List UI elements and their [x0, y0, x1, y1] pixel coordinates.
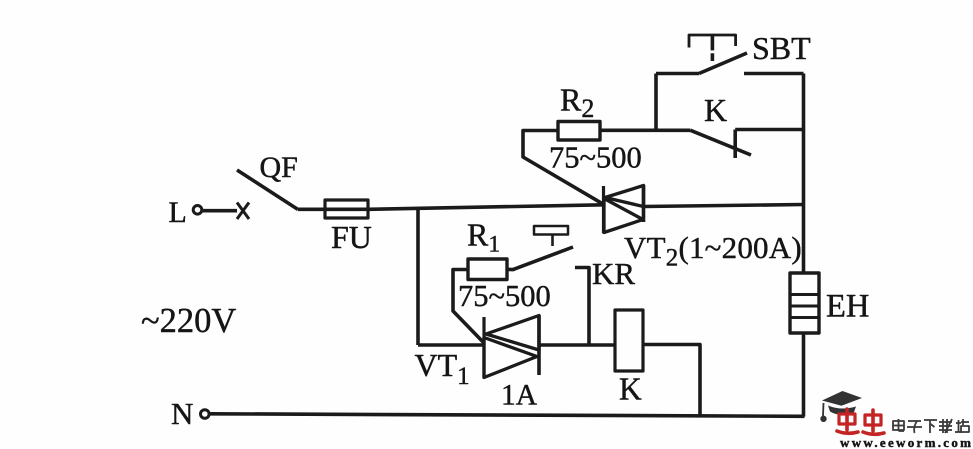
svg-text:R1: R1: [467, 217, 500, 258]
wire R1 gate bend: [453, 270, 484, 344]
wire SBT right: [744, 72, 804, 76]
wire right vertical upper: [802, 74, 806, 274]
wire R2 gate bend: [523, 131, 604, 205]
svg-text:K: K: [704, 92, 727, 128]
graduation cap: [822, 391, 862, 415]
svg-text:SBT: SBT: [752, 30, 811, 66]
tassel: [821, 403, 825, 421]
svg-text:QF: QF: [260, 151, 298, 184]
wire QF to FU: [298, 208, 325, 212]
wire R2 to K contact: [600, 129, 691, 133]
svg-text:www.eeworm.com: www.eeworm.com: [840, 435, 973, 449]
triac VT2: [604, 185, 802, 272]
relay coil K: [615, 310, 643, 407]
wire R1 to KR contact: [507, 268, 514, 272]
wire KR vertical with hook: [575, 256, 635, 345]
terminal N: [171, 396, 209, 431]
wire junction down branch: [416, 209, 420, 346]
svg-text:R2: R2: [560, 82, 594, 124]
svg-text:75~500: 75~500: [549, 141, 642, 175]
svg-text:K: K: [619, 372, 642, 407]
svg-text:EH: EH: [826, 289, 869, 325]
wire right vertical lower: [802, 333, 806, 417]
wire K coil to N line: [643, 345, 700, 417]
svg-text:L: L: [169, 196, 187, 229]
terminal L: [169, 196, 202, 229]
contact K: [691, 92, 752, 158]
wire K contact right: [735, 128, 803, 132]
svg-text:VT2(1~200A): VT2(1~200A): [624, 230, 802, 272]
wire VT1 to relay coil K: [539, 343, 615, 347]
thermal contact KR blade: [513, 247, 573, 270]
watermark logo eeworm: [821, 391, 973, 449]
wire VT2 to right vertical: [644, 205, 804, 207]
breaker contact X: [237, 203, 249, 220]
wire FU to VT2: [368, 205, 604, 210]
pushbutton SBT: [656, 30, 811, 74]
wire lower branch to VT1: [418, 343, 484, 347]
dark site name glyphs: [893, 419, 969, 433]
svg-text:N: N: [171, 396, 193, 431]
svg-text:75~500: 75~500: [458, 279, 551, 313]
triac VT1: [415, 315, 540, 412]
wire SBT vertical: [654, 74, 658, 131]
heater EH: [790, 273, 869, 333]
svg-text:1A: 1A: [501, 380, 538, 412]
svg-text:VT1: VT1: [415, 347, 470, 390]
breaker QF: [237, 151, 298, 210]
wire L to breaker contact: [203, 209, 238, 213]
resistor R2: [549, 82, 642, 175]
wire N line: [210, 414, 805, 417]
svg-text:FU: FU: [331, 219, 372, 255]
svg-text:~220V: ~220V: [141, 302, 236, 340]
thermal contact KR actuator: [534, 226, 568, 246]
resistor R1: [458, 217, 551, 314]
red chongchong glyphs: [837, 409, 884, 434]
fuse FU: [325, 200, 372, 255]
